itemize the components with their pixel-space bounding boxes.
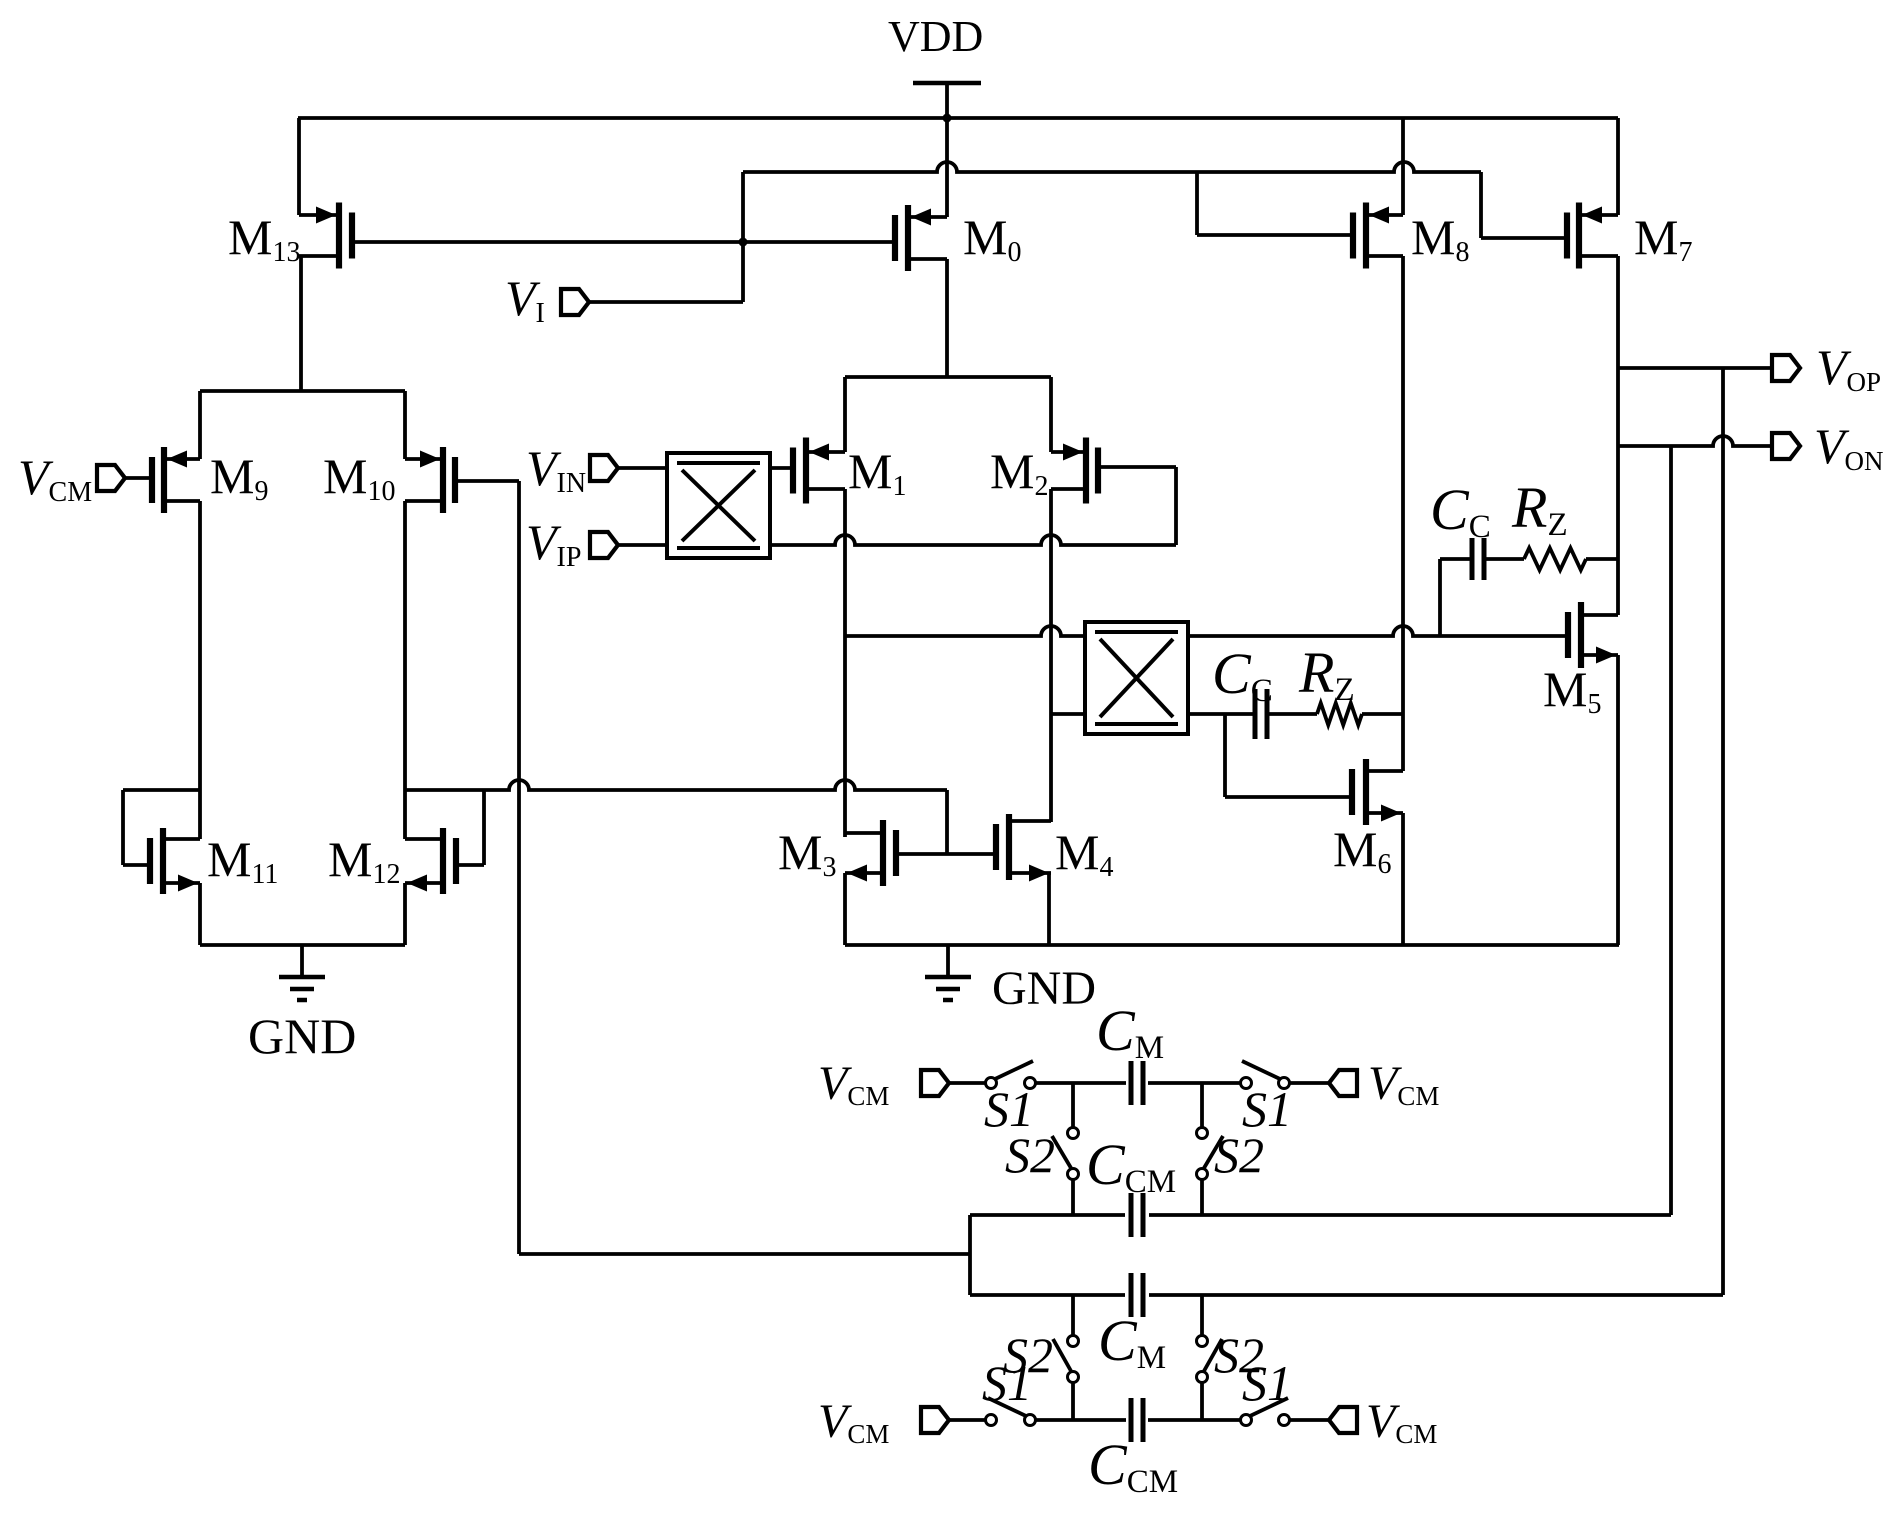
wire M3-M4 gate line xyxy=(896,852,996,856)
wire M10 gate feedback down xyxy=(517,481,521,1254)
wire M2 gate link xyxy=(1098,467,1176,545)
wire M7 drain down xyxy=(1616,256,1620,615)
wire VI riser xyxy=(741,172,745,302)
S1 row4 left label xyxy=(982,1355,1032,1411)
S2 upper right label xyxy=(1214,1127,1264,1183)
M6 label xyxy=(1333,821,1391,880)
wire mirror gate riser xyxy=(945,790,949,854)
wire M8 source to rail xyxy=(1401,118,1405,215)
capacitor CCM bus top xyxy=(1131,1193,1143,1237)
M1 label xyxy=(848,443,906,502)
S2 lower left label xyxy=(1003,1327,1053,1383)
wire Rz to M8 drain line xyxy=(1362,712,1403,716)
VDD top rail xyxy=(298,116,1618,120)
wire bus bottom line xyxy=(970,1293,1723,1297)
wire M12 gate link xyxy=(456,790,484,865)
wire M9 drain down xyxy=(198,501,202,839)
M11 label xyxy=(207,831,278,890)
wire M6 source down xyxy=(1401,813,1405,945)
svg-text:S1: S1 xyxy=(1242,1355,1292,1411)
wire VIP to chopper xyxy=(618,543,667,547)
M0 label xyxy=(963,209,1021,268)
wire M13 drain down xyxy=(299,256,303,391)
transistor M10 xyxy=(405,447,455,513)
switch S1 row1 left xyxy=(986,1061,1036,1089)
wire left gnd rail xyxy=(200,943,405,947)
wire M13-M0 gate line xyxy=(352,240,895,244)
wire gate node to Cc upper xyxy=(1438,559,1442,636)
wire mirror node to M3-M4 gates xyxy=(405,780,947,790)
wire Cc to Rz lower xyxy=(1267,712,1317,716)
svg-text:VDD: VDD xyxy=(888,12,983,61)
svg-text:GND: GND xyxy=(992,962,1096,1015)
wire bus left edge xyxy=(968,1215,972,1295)
capacitor CC lower xyxy=(1255,689,1267,739)
wire M4 source down xyxy=(1047,873,1051,945)
M5 label xyxy=(1543,661,1601,720)
wire M11 source down xyxy=(198,883,202,945)
VOP label xyxy=(1816,339,1881,397)
wire M10 drain down xyxy=(403,501,407,839)
wire S2 left lower riser xyxy=(1071,1295,1075,1335)
S2 upper left label xyxy=(1005,1127,1055,1183)
svg-text:S1: S1 xyxy=(982,1355,1032,1411)
transistor M4 xyxy=(996,814,1051,882)
switch S2 upper left xyxy=(1052,1128,1079,1180)
capacitor CC upper xyxy=(1472,538,1484,580)
svg-text:S2: S2 xyxy=(1214,1127,1264,1183)
chopper box input xyxy=(667,453,770,558)
wire S2 left upper to bus xyxy=(1071,1180,1075,1215)
wire row1 a xyxy=(949,1081,986,1085)
wire bus top line xyxy=(970,1213,1671,1217)
wire S2 right upper to bus xyxy=(1200,1180,1204,1215)
wire VON feedback riser xyxy=(1669,446,1673,1215)
transistor M7 xyxy=(1567,203,1618,269)
wire M0 source stem xyxy=(945,118,949,217)
wire row1 c xyxy=(1148,1081,1241,1085)
VCM port row4 right xyxy=(1329,1407,1357,1433)
VCM row1 left label xyxy=(818,1057,889,1111)
wire tail rail xyxy=(845,375,1051,379)
wire VOP line xyxy=(1618,366,1772,370)
wire VON line with hop xyxy=(1618,436,1772,446)
VDD label xyxy=(888,12,983,61)
M3 label xyxy=(778,824,836,883)
switch S1 row4 left xyxy=(986,1398,1036,1426)
wire row1 b xyxy=(1035,1081,1126,1085)
transistor M2 xyxy=(1051,438,1098,504)
transistor M6 xyxy=(1352,759,1403,825)
wire row4 c xyxy=(1148,1418,1241,1422)
wire M9 source riser xyxy=(198,391,202,459)
VI port xyxy=(561,289,589,315)
wire VIN to chopper xyxy=(618,466,667,470)
wire M10 source riser xyxy=(403,391,407,459)
CM lower label xyxy=(1098,1308,1166,1376)
wire M10 gate xyxy=(455,479,519,483)
CCM row4 label xyxy=(1088,1432,1178,1500)
M9 label xyxy=(210,448,268,507)
switch S2 lower right xyxy=(1197,1336,1223,1383)
RZ upper label xyxy=(1511,475,1568,543)
wire M13 source to rail xyxy=(297,118,301,215)
wire to CC lower plate xyxy=(1225,712,1256,716)
switch S2 lower left xyxy=(1053,1336,1079,1383)
wire row4 a xyxy=(949,1418,986,1422)
wire M5 gate line left xyxy=(845,626,1085,636)
wire to CC upper plate xyxy=(1440,557,1473,561)
resistor RZ lower xyxy=(1317,703,1362,725)
VIP port xyxy=(590,532,618,558)
wire M1 drain down xyxy=(843,489,847,837)
wire S2 left upper riser xyxy=(1071,1083,1075,1127)
VCM row1 right label xyxy=(1368,1057,1439,1111)
junction dot VDD-rail xyxy=(943,114,952,123)
CM row1 label xyxy=(1096,998,1164,1066)
wire VOP feedback riser xyxy=(1721,368,1725,1295)
wire chopper to M1 gate xyxy=(770,466,793,470)
ground symbol left xyxy=(279,945,325,1000)
wire M1 source riser xyxy=(843,377,847,452)
wire M5 gate line right xyxy=(1188,626,1568,636)
wire row1 d xyxy=(1289,1081,1329,1085)
transistor M5 xyxy=(1568,602,1618,668)
M7 label xyxy=(1634,209,1692,268)
M4 label xyxy=(1055,824,1113,883)
ground symbol center xyxy=(925,945,971,1000)
switch S1 row1 right xyxy=(1241,1061,1290,1089)
wire M5 source down xyxy=(1616,655,1620,945)
transistor M8 xyxy=(1353,203,1403,269)
transistor M1 xyxy=(793,438,845,504)
wire M11 diode link xyxy=(123,790,200,865)
wire row4 d xyxy=(1289,1418,1329,1422)
M8 label xyxy=(1411,209,1469,268)
CC upper label xyxy=(1430,477,1491,545)
capacitor CM bus bottom xyxy=(1131,1273,1143,1317)
M13 label xyxy=(228,209,300,268)
M12 label xyxy=(328,831,400,890)
VIN port xyxy=(590,455,618,481)
M10 label xyxy=(323,448,395,507)
VCM port row4 left xyxy=(921,1407,949,1433)
GND left label xyxy=(248,1008,356,1064)
wire M2 drain to chopper xyxy=(1051,712,1085,716)
wire row4 b xyxy=(1035,1418,1126,1422)
RZ lower label xyxy=(1298,640,1355,708)
wire M3 source down xyxy=(843,873,847,945)
wire center gnd rail xyxy=(845,943,1619,947)
VCM row4 left label xyxy=(818,1395,889,1449)
wire Cc upper to Rz xyxy=(1484,557,1524,561)
VI label xyxy=(505,270,545,329)
VDD symbol T-bar xyxy=(913,83,981,118)
wire M8 gate riser xyxy=(1197,172,1353,235)
VCM port left xyxy=(97,465,125,491)
VIN label xyxy=(526,440,586,499)
VON label xyxy=(1814,418,1884,476)
transistor M13 xyxy=(299,203,352,269)
svg-text:GND: GND xyxy=(248,1008,356,1064)
wire left block top rail xyxy=(200,389,405,393)
wire feedback to bus xyxy=(519,1252,970,1256)
wire M7 gate riser xyxy=(1481,172,1567,238)
wire M2 source riser xyxy=(1049,377,1053,452)
capacitor CM row1 xyxy=(1131,1061,1143,1105)
wire M6 gate branch xyxy=(1225,714,1352,797)
wire M0 drain down xyxy=(945,259,949,377)
VON port xyxy=(1772,433,1800,459)
junction dot VI gate line xyxy=(739,238,748,247)
S1 row4 right label xyxy=(1242,1355,1292,1411)
CC lower label xyxy=(1212,641,1273,709)
capacitor CCM row4 xyxy=(1131,1398,1143,1442)
VOP port xyxy=(1772,355,1800,381)
switch S1 row4 right xyxy=(1241,1398,1290,1426)
GND center label xyxy=(992,962,1096,1015)
VI bias rail with hops xyxy=(743,162,1481,172)
svg-text:S2: S2 xyxy=(1005,1127,1055,1183)
wire S2 left lower down xyxy=(1071,1383,1075,1420)
wire Rz upper to M5 drain xyxy=(1586,557,1618,561)
transistor M0 xyxy=(895,205,947,271)
wire VI to riser xyxy=(589,300,743,304)
wire M8 drain down xyxy=(1401,256,1405,771)
VCM port row1 right xyxy=(1329,1070,1357,1096)
wire VCM to M9 gate xyxy=(125,476,152,480)
S2 lower right label xyxy=(1214,1327,1264,1383)
VIP label xyxy=(526,514,581,573)
VCM row4 right label xyxy=(1366,1395,1437,1449)
wire S2 right lower riser xyxy=(1200,1295,1204,1335)
VCM left label xyxy=(18,449,92,508)
chopper box output xyxy=(1085,622,1188,734)
VCM port row1 left xyxy=(921,1070,949,1096)
wire chopper out VIP with hops xyxy=(770,535,1176,545)
S1 row1 right label xyxy=(1242,1081,1292,1137)
transistor M11 xyxy=(150,828,200,894)
M2 label xyxy=(990,443,1048,502)
transistor M9 xyxy=(152,447,200,513)
wire M12 source down xyxy=(403,883,407,945)
wire S2 right lower down xyxy=(1200,1383,1204,1420)
switch S2 upper right xyxy=(1197,1128,1224,1180)
CCM upper label xyxy=(1086,1132,1176,1200)
wire S2 right upper riser xyxy=(1200,1083,1204,1127)
S1 row1 left label xyxy=(984,1081,1034,1137)
wire chopper to Cc xyxy=(1188,712,1225,716)
resistor RZ upper xyxy=(1524,548,1586,570)
wire M2 drain down xyxy=(1049,489,1053,822)
transistor M12 xyxy=(405,828,456,894)
transistor M3 xyxy=(845,820,896,886)
wire M7 source to rail xyxy=(1616,118,1620,215)
